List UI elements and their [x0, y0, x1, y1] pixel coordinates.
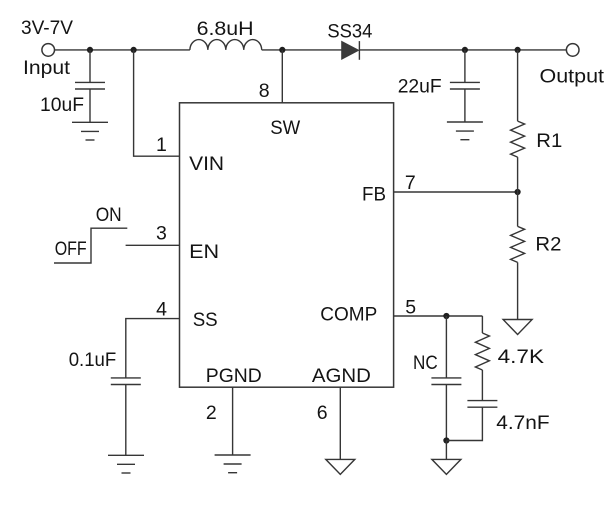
wire AGND pin 6	[339, 387, 341, 459]
svg-text:VIN: VIN	[189, 153, 224, 175]
ground: input cap	[72, 122, 108, 140]
node: comp network junction	[443, 437, 449, 443]
svg-text:SS34: SS34	[327, 21, 372, 43]
node: FB divider	[515, 189, 521, 195]
svg-text:ON: ON	[96, 204, 122, 226]
ON/OFF step waveform	[54, 228, 127, 263]
svg-text:3V-7V: 3V-7V	[21, 17, 73, 39]
wire SS pin 4	[126, 319, 180, 378]
svg-text:R2: R2	[535, 234, 561, 256]
wire PGND pin 2	[232, 387, 234, 455]
svg-text:7: 7	[405, 172, 416, 194]
wire EN pin 3	[126, 244, 180, 246]
svg-text:4.7K: 4.7K	[498, 346, 544, 368]
svg-text:4.7nF: 4.7nF	[496, 412, 549, 434]
wire COMP to 4.7K	[481, 316, 483, 333]
svg-text:COMP: COMP	[320, 304, 377, 326]
svg-text:PGND: PGND	[206, 365, 262, 387]
ground: PGND	[215, 455, 251, 473]
svg-text:8: 8	[259, 80, 270, 102]
wire diode to output	[359, 49, 566, 51]
svg-text:EN: EN	[189, 241, 219, 263]
svg-text:5: 5	[405, 297, 416, 319]
ground: comp network triangle	[432, 459, 461, 474]
wire R1 to R2	[517, 157, 519, 226]
wire FB pin 7	[394, 191, 518, 193]
wire 4.7nF to junction	[446, 407, 482, 440]
output terminal	[566, 44, 579, 57]
wire COMP to NC cap	[445, 316, 447, 378]
ground: output cap	[447, 122, 483, 140]
capacitor C4 4.7nF	[467, 401, 497, 408]
capacitor NC	[431, 378, 461, 385]
node: VIN tap	[131, 47, 137, 53]
ground: soft-start cap	[108, 455, 144, 473]
IC U1	[180, 103, 394, 387]
wire COMP pin 5	[394, 315, 483, 317]
svg-text:Output: Output	[540, 66, 605, 88]
wire VIN branch	[134, 50, 180, 156]
wire junction to triangle ground	[445, 441, 447, 460]
capacitor C1 10uF	[75, 82, 105, 89]
capacitor C3 0.1uF	[111, 378, 141, 385]
ground: R2 signal triangle	[503, 320, 532, 335]
svg-text:22uF: 22uF	[398, 75, 442, 97]
svg-text:R1: R1	[536, 130, 562, 152]
wire to C1 top	[89, 50, 91, 83]
wire inductor to diode	[262, 49, 342, 51]
resistor R2	[511, 226, 525, 262]
inductor L1 6.8uH	[190, 40, 262, 50]
wire SW pin 8	[281, 50, 283, 103]
node: R1 tap	[515, 47, 521, 53]
wire NC cap to bottom junction	[445, 385, 447, 441]
node: COMP junction	[443, 313, 449, 319]
svg-text:6.8uH: 6.8uH	[197, 18, 254, 40]
svg-text:NC: NC	[413, 352, 438, 374]
svg-text:SW: SW	[270, 117, 301, 139]
node: 22uF tap	[462, 47, 468, 53]
svg-text:4: 4	[156, 299, 167, 321]
svg-text:AGND: AGND	[312, 365, 371, 387]
resistor R1	[511, 121, 525, 157]
diode D1 SS34	[342, 41, 360, 60]
svg-text:Input: Input	[23, 57, 71, 79]
svg-text:SS: SS	[193, 309, 218, 331]
svg-text:FB: FB	[362, 184, 386, 206]
resistor R3 4.7K	[475, 333, 489, 370]
ground: AGND signal triangle	[326, 459, 355, 474]
node: input cap tap	[87, 47, 93, 53]
node: SW tap	[279, 47, 285, 53]
wire C2 bottom to ground	[464, 89, 466, 122]
wire to C2 top	[464, 50, 466, 83]
wire output to R1	[517, 50, 519, 121]
svg-text:6: 6	[317, 402, 328, 424]
svg-text:OFF: OFF	[55, 238, 87, 260]
svg-text:10uF: 10uF	[40, 94, 84, 116]
wire R2 to ground	[517, 262, 519, 319]
wire C3 bottom to ground	[125, 385, 127, 456]
wire C1 bottom to ground	[89, 89, 91, 122]
wire input rail	[55, 49, 190, 51]
wire 4.7K to 4.7nF	[481, 370, 483, 401]
svg-text:1: 1	[156, 134, 167, 156]
svg-text:2: 2	[206, 402, 217, 424]
svg-text:0.1uF: 0.1uF	[69, 349, 117, 371]
svg-text:3: 3	[156, 223, 167, 245]
input terminal	[42, 44, 55, 57]
capacitor C2 22uF	[450, 82, 480, 89]
